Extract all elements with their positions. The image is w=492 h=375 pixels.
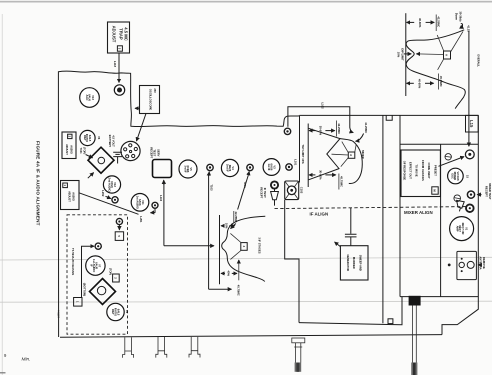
svg-text:42.25MC: 42.25MC (337, 123, 341, 134)
svg-text:DET: DET (83, 135, 87, 141)
svg-text:45.75MC: 45.75MC (439, 76, 443, 87)
svg-text:(BOTTOM): (BOTTOM) (83, 283, 87, 296)
IF response curve 3 IF stages (222, 216, 266, 281)
svg-text:DIP LIMIT: DIP LIMIT (400, 48, 404, 61)
chassis bottom step edge (299, 297, 402, 325)
label 42.25MC overall (436, 15, 440, 32)
label L202 with arrow (101, 190, 111, 198)
arrow from sweep generator (335, 242, 341, 247)
svg-text:250: 250 (153, 88, 157, 93)
page top edge artifact (0, 1, 492, 3)
svg-text:ADJUST: ADJUST (67, 191, 71, 202)
mounting leg 1 (123, 337, 134, 358)
svg-text:41.25: 41.25 (467, 25, 471, 32)
tube V4 (221, 159, 238, 176)
mixer response curve (309, 128, 341, 180)
svg-text:SWEEP AND: SWEEP AND (359, 255, 363, 271)
label 45.75MC mixer (339, 174, 344, 190)
svg-text:REMOVE: REMOVE (482, 257, 486, 269)
antenna connector block (409, 296, 421, 306)
mixer test terminal (467, 191, 474, 198)
marker box on 3IF curve (230, 233, 247, 259)
trap adjust box (108, 22, 130, 53)
svg-text:PRESET: PRESET (434, 165, 438, 176)
tuner top strip divider (400, 143, 478, 145)
svg-text:ANTENNA: ANTENNA (479, 256, 483, 269)
marker box mixer curve (332, 142, 357, 167)
svg-text:40-60%: 40-60% (418, 79, 422, 89)
svg-text:DET: DET (111, 309, 115, 315)
tuner bottom edge (400, 296, 478, 298)
svg-text:ADJUST: ADJUST (65, 144, 69, 155)
top edge notch (386, 115, 392, 120)
wire L118 with arrow (118, 53, 120, 83)
svg-text:OVERALL: OVERALL (476, 54, 480, 67)
svg-text:RECEPT: RECEPT (484, 186, 488, 197)
svg-text:V6: V6 (97, 136, 101, 140)
tuner left wall (399, 115, 401, 296)
svg-text:A: A (349, 154, 353, 156)
tuner interior divider (440, 144, 442, 296)
phono jack C103 (box with X) (285, 181, 304, 200)
tube V6 ratio det (80, 130, 101, 145)
mixer test plug (funnel) (457, 200, 465, 211)
coupling capacitor to sweep generator (345, 208, 357, 246)
marker box A overall (416, 31, 463, 69)
dashed line IF ALIGN / MIXER ALIGN (275, 207, 467, 209)
mounting leg 3 (189, 337, 200, 358)
terminal L202 (112, 197, 118, 203)
interlock plug below chassis (292, 338, 305, 372)
label serv test recept (149, 147, 160, 158)
adjust box 2 (top) (109, 268, 120, 282)
transformer T102 (square can) (153, 160, 172, 178)
label 42.25MC mixer (336, 121, 340, 137)
terminal in module upper (95, 243, 101, 249)
service test receptacle socket (121, 141, 140, 160)
oscilloscope probe wire (137, 114, 147, 142)
svg-text:AUDIO: AUDIO (70, 145, 74, 154)
audio adjust box 1 (61, 181, 80, 210)
screw adjust lower (454, 195, 461, 202)
chassis inner wall (382, 115, 384, 323)
svg-text:FIGURE 4A IF & AUDIO ALIGNMENT: FIGURE 4A IF & AUDIO ALIGNMENT (35, 141, 40, 226)
40% arrow bottom of 3IF curve (221, 271, 237, 277)
svg-text:AGC: AGC (85, 95, 89, 101)
svg-text:45.75MC: 45.75MC (339, 176, 343, 187)
svg-text:40%: 40% (226, 271, 230, 277)
svg-text:(TOP): (TOP) (82, 147, 86, 154)
wire L102 (288, 103, 353, 133)
svg-text:2nd AUDIO: 2nd AUDIO (107, 177, 111, 191)
svg-text:V13: V13 (91, 95, 95, 100)
label T101 (TOP) with arrow (79, 147, 92, 158)
mixer align terminal (466, 204, 474, 212)
svg-text:BATTERY: BATTERY (108, 135, 112, 148)
svg-text:L202: L202 (101, 190, 105, 197)
tube V5 (179, 160, 197, 178)
arrow from oscilloscope to chassis (135, 107, 140, 109)
svg-text:40-60%: 40-60% (418, 18, 422, 28)
overall response curve baseline (405, 13, 407, 96)
svg-text:MARKER: MARKER (352, 257, 356, 269)
overall response curve (406, 30, 465, 109)
label REMOVE ANTENNA with arrow (478, 256, 486, 269)
svg-text:FROM CHASSIS: FROM CHASSIS (421, 160, 425, 181)
terminal above adjust 5 (116, 218, 122, 229)
svg-text:OSCILLOSCOPE: OSCILLOSCOPE (148, 89, 152, 111)
mixer core terminal (465, 150, 474, 159)
scan streak artifact upper (0, 257, 492, 260)
svg-text:RECEPT: RECEPT (260, 187, 264, 198)
svg-text:L15: L15 (469, 120, 474, 128)
tube V3 (263, 159, 280, 176)
scan streak artifact lower (0, 301, 492, 302)
arrow into T101 bottom (88, 173, 94, 179)
svg-text:CORE AWAY: CORE AWAY (427, 162, 431, 178)
terminal T103 top (207, 164, 213, 170)
svg-text:L118: L118 (113, 61, 117, 67)
svg-text:42.25MC: 42.25MC (234, 212, 238, 223)
svg-text:30-60%: 30-60% (318, 170, 322, 180)
svg-text:V8: V8 (125, 310, 129, 314)
label MIXER TEST RECEPT (477, 183, 492, 199)
label 45.75MC on 3IF curve (237, 260, 241, 296)
svg-text:T104: T104 (243, 181, 247, 188)
transformer T101 bottom view (diamond) (90, 279, 116, 305)
svg-text:15: 15 (466, 175, 470, 178)
chassis top edge right section (300, 114, 479, 116)
svg-text:30-38db: 30-38db (458, 11, 462, 22)
transformer T101 (diamond) (88, 147, 114, 173)
battery 4.5V label (108, 135, 116, 148)
wire T104 to 42.25MC marker (238, 172, 250, 210)
tuner right wall with chamfer (442, 115, 478, 334)
terminal right of V11 with elbow (151, 202, 159, 213)
tube V1 (450, 217, 474, 241)
svg-text:Min.: Min. (22, 357, 31, 363)
svg-text:TRAP: TRAP (119, 28, 124, 40)
terminal L118 (bullseye) (114, 85, 124, 95)
label 30-38db down with squiggle (455, 11, 464, 28)
wire from overall curve to tuner (468, 31, 470, 146)
wire T103 to 45.75MC marker (209, 172, 232, 289)
svg-text:L110: L110 (159, 195, 163, 201)
svg-text:T103: T103 (209, 184, 213, 191)
svg-text:3rd IF: 3rd IF (183, 165, 187, 173)
chassis outline left section (wavy top edge) (58, 71, 299, 337)
svg-text:1st AUDIO: 1st AUDIO (135, 196, 139, 209)
preset core note box (401, 150, 440, 197)
page left edge artifact (1, 14, 4, 375)
arrow preset note to core screw (439, 157, 465, 167)
40-60% arrow top overall (407, 18, 435, 28)
10% arrow top of 3IF curve (221, 223, 235, 229)
svg-text:10%: 10% (397, 52, 401, 58)
mixer curve tail (340, 139, 362, 184)
terminal L102 (284, 128, 290, 134)
antenna terminal plate (457, 251, 477, 279)
label 41.25MC mixer with hook arrow (356, 122, 368, 141)
dip limit label with arrow (397, 48, 412, 61)
svg-text:OF RESPONSE: OF RESPONSE (402, 161, 406, 181)
svg-text:42.25MC: 42.25MC (437, 16, 441, 27)
terminal T104 (247, 164, 253, 170)
svg-text:2nd IF: 2nd IF (225, 164, 229, 172)
svg-text:MIXER ALIGN: MIXER ALIGN (404, 210, 433, 215)
screw dot left of plate (448, 264, 451, 267)
IF test receptacle jack (260, 181, 278, 198)
svg-text:30-60%: 30-60% (318, 126, 322, 136)
antenna rod (411, 306, 417, 375)
audio adjust box 2 (62, 132, 76, 159)
svg-text:1st IF: 1st IF (267, 163, 271, 170)
svg-text:AMP: AMP (455, 226, 459, 232)
battery symbol (113, 152, 122, 163)
sweep and marker generator box (340, 246, 368, 280)
tube V8 ratio det (107, 303, 129, 320)
svg-text:ADJUST: ADJUST (112, 26, 117, 43)
svg-text:45.75MC: 45.75MC (237, 285, 241, 296)
svg-text:L201: L201 (139, 216, 143, 223)
IF response curve 3 IF stages: baseline (219, 215, 221, 284)
sub-chassis dashed outline (67, 215, 128, 334)
svg-text:L101: L101 (293, 159, 297, 166)
label 45.75MC overall (438, 74, 443, 90)
svg-text:RECEPT: RECEPT (149, 147, 153, 158)
screw adjust top (445, 154, 451, 160)
tube V7 (86, 256, 105, 275)
mounting leg 2 (156, 337, 167, 358)
svg-text:4-1137: 4-1137 (57, 310, 61, 318)
inner wall foot box (388, 319, 393, 324)
svg-text:TS 594A-80 CHASSIS: TS 594A-80 CHASSIS (71, 248, 75, 275)
svg-text:EFFECT OUT: EFFECT OUT (409, 162, 413, 179)
oscilloscope box (140, 86, 160, 114)
svg-text:Down: Down (455, 13, 459, 21)
svg-text:TILT LIMIT 10%: TILT LIMIT 10% (301, 144, 305, 164)
svg-text:(TOP): (TOP) (109, 268, 113, 275)
mixer response curve baseline (307, 124, 309, 188)
svg-text:C103: C103 (300, 187, 304, 194)
adjust box 1 (bottom) (74, 298, 82, 307)
svg-text:41.25MC: 41.25MC (364, 122, 368, 133)
svg-text:OSC: OSC (450, 173, 454, 179)
wire from adjust 1 to terminal (82, 246, 95, 297)
tube V13 (80, 88, 100, 108)
svg-text:4.5 VOLT: 4.5 VOLT (112, 135, 116, 147)
svg-text:IF ALIGN: IF ALIGN (310, 212, 329, 217)
tube V12 (103, 176, 120, 193)
coil L15 box (466, 115, 479, 132)
wire from audio adjust 1 to L201 (79, 193, 139, 215)
svg-text:TO MOVE: TO MOVE (415, 164, 419, 177)
terminal L101 (286, 159, 298, 170)
wire L110 from T102 to IF curve dip (159, 180, 214, 246)
IF test plug (funnel) (271, 189, 279, 206)
chassis cutout wall below IF test jack (285, 200, 299, 323)
svg-text:MIXER TEST: MIXER TEST (488, 183, 492, 199)
svg-text:IF: IF (89, 264, 93, 267)
30-60% arrow bottom mixer (309, 170, 336, 180)
chassis left wall of IF section (299, 115, 301, 182)
adjust box 5 (115, 232, 123, 241)
30-60% arrow top mixer (309, 126, 335, 136)
bottom left corner mark (0, 372, 6, 374)
svg-text:10%: 10% (225, 223, 229, 229)
svg-text:A: A (445, 54, 449, 56)
svg-text:SERV: SERV (156, 149, 160, 156)
40-60% arrow bottom overall (407, 79, 434, 89)
tube V2 (448, 168, 470, 184)
svg-text:L102: L102 (321, 103, 325, 110)
label 42.25MC on 3IF curve (231, 211, 239, 229)
svg-text:3 IF STAGES: 3 IF STAGES (258, 237, 262, 253)
svg-text:AUDIO: AUDIO (72, 192, 76, 201)
chassis front edge (60, 335, 442, 338)
svg-text:GENERATOR: GENERATOR (346, 254, 350, 271)
svg-text:MIXER: MIXER (361, 150, 365, 159)
tube V11 (131, 194, 149, 212)
